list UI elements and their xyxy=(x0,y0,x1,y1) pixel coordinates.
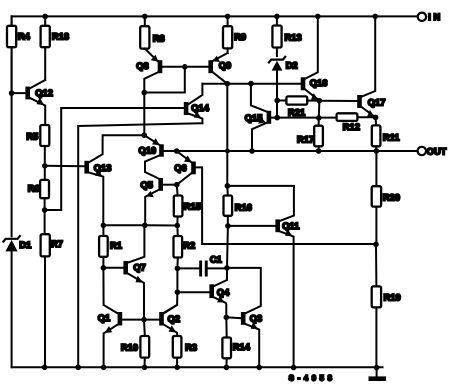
terminal OUT xyxy=(418,146,447,156)
node Q5 base / Q6 collector / R15 top junction xyxy=(174,182,180,188)
wire R5 bottom to Q13 base xyxy=(45,165,85,167)
svg-text:Q15: Q15 xyxy=(245,113,263,123)
wire R16 top east and down to Q11 collector xyxy=(227,186,294,221)
node C1 right / Q4 collector junction xyxy=(224,265,230,271)
svg-text:Q2: Q2 xyxy=(168,314,180,324)
node R7 bottom on rail xyxy=(42,365,48,371)
wire R16 bottom down to C1 right xyxy=(226,226,229,268)
svg-text:R17: R17 xyxy=(297,135,314,145)
resistor R12 xyxy=(337,113,376,132)
wire R4 leads xyxy=(11,16,13,92)
resistor R18 xyxy=(41,26,50,47)
svg-text:R8: R8 xyxy=(153,34,165,44)
node R16 top junction xyxy=(225,183,231,189)
svg-text:R20: R20 xyxy=(383,193,400,203)
transistor Q3 xyxy=(241,312,262,367)
svg-text:Q14: Q14 xyxy=(191,103,209,113)
transistor Q13 xyxy=(84,135,144,225)
wire base junction down and west to Q8 collector line xyxy=(144,67,185,93)
resistor R15 xyxy=(174,185,201,226)
svg-text:R15: R15 xyxy=(184,201,201,211)
node Q4 base / Q2 collector junction xyxy=(175,289,181,295)
svg-text:OUT: OUT xyxy=(427,146,447,156)
node Q4 emitter / Q3 base / R14 top junction xyxy=(224,315,230,321)
wire base junction to Q2 xyxy=(144,319,159,321)
capacitor C1 xyxy=(177,254,227,276)
svg-text:Q6: Q6 xyxy=(174,163,186,173)
node Q10 emitter junction xyxy=(142,132,148,138)
transistor Q6 xyxy=(174,151,375,244)
transistor Q1 xyxy=(98,305,144,367)
svg-text:R19: R19 xyxy=(384,293,401,303)
resistor R14 xyxy=(222,317,250,367)
svg-text:R9: R9 xyxy=(234,32,246,42)
svg-text:D2: D2 xyxy=(286,61,298,71)
svg-text:R18: R18 xyxy=(52,31,69,41)
node Q8-Q9 base wire junction xyxy=(182,64,188,70)
svg-text:R6: R6 xyxy=(28,184,40,194)
wire Q14 collector east to Q16 base xyxy=(202,83,300,85)
transistor Q9 xyxy=(208,53,231,84)
wire top supply rail xyxy=(12,15,418,17)
transistor Q7 xyxy=(123,225,145,319)
svg-text:D1: D1 xyxy=(19,240,31,250)
resistor R21 xyxy=(277,96,319,117)
node D2 anode / R21 left junction xyxy=(274,98,280,104)
svg-text:Q3: Q3 xyxy=(250,314,262,324)
svg-text:Q4: Q4 xyxy=(217,288,230,298)
node Q11 emitter on rail xyxy=(291,365,297,371)
node top rail junctions xyxy=(42,14,378,20)
svg-text:Q1: Q1 xyxy=(98,313,110,323)
wire R6 bottom east then north to Q14 base xyxy=(45,108,184,210)
svg-text:R7: R7 xyxy=(51,239,63,249)
svg-text:R14: R14 xyxy=(233,342,251,352)
transistor Q2 xyxy=(159,305,180,336)
wire R16 bottom east to Q11 base xyxy=(228,225,276,227)
svg-text:Q13: Q13 xyxy=(94,163,112,173)
node Q10 base / Q6 emitter junction on OUT rail xyxy=(174,148,180,154)
node R15 bottom junction xyxy=(175,223,181,229)
wire R18 leads xyxy=(44,16,46,80)
node R12 left / Q15 base-line junction xyxy=(316,115,322,121)
svg-text:R1: R1 xyxy=(110,241,122,251)
resistor R16 xyxy=(224,186,252,226)
node crossing on OUT rail xyxy=(225,149,230,154)
transistor Q8 xyxy=(136,49,208,136)
svg-text:Q17: Q17 xyxy=(368,97,386,107)
diode D1 (zener) xyxy=(3,236,31,251)
node R10 bottom on rail xyxy=(142,365,148,371)
node R20 bottom / Q6 base-line junction xyxy=(373,242,379,248)
terminal IN xyxy=(418,12,443,22)
transistor Q10 xyxy=(139,135,177,178)
svg-text:R5: R5 xyxy=(26,131,38,141)
node Q9 collector junction xyxy=(225,81,231,87)
node Q1-Q2 base junction xyxy=(141,317,147,323)
svg-text:R3: R3 xyxy=(185,343,197,353)
node Q8 collector junction xyxy=(142,90,148,96)
node R6-R7 junction xyxy=(42,207,48,213)
node R14 bottom on rail xyxy=(224,365,230,371)
wire R1 bottom to Q7 base xyxy=(103,267,123,269)
svg-text:Q5: Q5 xyxy=(141,180,153,190)
node Q15 emitter on OUT rail xyxy=(249,148,255,154)
resistor R9 xyxy=(223,16,246,53)
svg-text:Q16: Q16 xyxy=(310,78,328,88)
node Q1 emitter on rail xyxy=(101,365,107,371)
wire Q14 emitter run west and down to rail xyxy=(78,123,202,367)
node Q12 base junction xyxy=(9,90,15,96)
transistor Q5 xyxy=(141,178,177,225)
svg-text:S-4958: S-4958 xyxy=(289,374,336,383)
svg-text:Q7: Q7 xyxy=(133,262,145,272)
node base wire junction at x251 xyxy=(248,81,254,87)
resistor R7 xyxy=(41,234,63,367)
wire junction down through R12 node to R17 xyxy=(318,101,321,126)
transistor Q16 xyxy=(301,16,328,100)
svg-text:Q9: Q9 xyxy=(219,60,231,70)
svg-text:R4: R4 xyxy=(18,31,31,41)
node Q16 emitter / R21 right / Q17 base junction xyxy=(317,98,323,104)
wire bottom ground rail xyxy=(12,366,383,368)
node x78 on rail xyxy=(75,365,81,371)
node R5-R6 junction xyxy=(42,163,48,169)
wire left border column xyxy=(11,16,13,367)
svg-text:R10: R10 xyxy=(121,343,138,353)
svg-text:R21: R21 xyxy=(288,107,305,117)
resistor R5 xyxy=(26,125,49,166)
node R1 bottom junction xyxy=(101,265,107,271)
wire junction east to Q17 base xyxy=(319,100,357,102)
node R11 bottom on OUT rail xyxy=(374,148,380,154)
resistor R19 xyxy=(372,244,401,368)
svg-text:Q12: Q12 xyxy=(35,88,53,98)
wire C1 right east and down to Q3 collector xyxy=(227,268,261,313)
node R3 bottom on rail xyxy=(174,365,180,371)
ground xyxy=(369,368,387,382)
resistor R8 xyxy=(140,16,165,49)
resistor R2 xyxy=(174,226,196,269)
svg-text:R13: R13 xyxy=(285,33,302,43)
node Q13 emitter / R1 top junction xyxy=(101,223,107,229)
resistor R13 xyxy=(272,16,301,56)
node Q3 emitter on rail xyxy=(256,365,262,371)
svg-text:R16: R16 xyxy=(235,202,252,212)
node Q5 emitter / Q7 collector junction xyxy=(142,223,148,229)
node R17 bottom on OUT rail xyxy=(316,148,322,154)
wire y225 run west xyxy=(103,224,177,226)
transistor Q17 xyxy=(357,16,385,117)
svg-text:Q8: Q8 xyxy=(136,61,148,71)
transistor Q4 xyxy=(209,268,230,317)
resistor R10 xyxy=(121,320,149,368)
svg-text:IN: IN xyxy=(428,12,442,22)
svg-text:R2: R2 xyxy=(183,241,195,251)
resistor R3 xyxy=(173,336,197,367)
transistor Q14 xyxy=(184,84,210,124)
diode D2 (zener) xyxy=(269,57,298,118)
node Q17 emitter / R12 right / R11 top junction xyxy=(373,115,379,121)
node R16 bottom junction xyxy=(225,223,231,229)
resistor R11 xyxy=(372,117,400,151)
svg-text:R12: R12 xyxy=(343,122,360,132)
wire OUT rail xyxy=(164,150,418,152)
transistor Q12 xyxy=(12,80,53,125)
resistor R4 xyxy=(7,26,16,47)
wire R1 bottom down to Q1 collector xyxy=(102,268,104,305)
resistor R20 xyxy=(372,151,400,244)
node R19 bottom / ground junction xyxy=(374,365,380,371)
resistor R17 xyxy=(297,126,323,151)
transistor Q11 xyxy=(275,219,299,367)
wire R2 bottom down to Q4 base and Q2 collector xyxy=(164,268,210,312)
wire Q9 collector down to R16 xyxy=(226,84,228,186)
transistor Q15 xyxy=(245,84,337,152)
svg-text:R11: R11 xyxy=(383,132,400,142)
resistor R6 xyxy=(28,166,49,234)
svg-text:C1: C1 xyxy=(210,254,222,264)
svg-text:Q10: Q10 xyxy=(139,145,157,155)
svg-text:Q11: Q11 xyxy=(282,221,299,231)
resistor R1 xyxy=(99,225,122,267)
node R2 bottom / C1 left junction xyxy=(175,266,181,272)
node D2 anode / Q15 base junction xyxy=(274,115,280,121)
wire junction east to Q3 base xyxy=(226,316,241,319)
